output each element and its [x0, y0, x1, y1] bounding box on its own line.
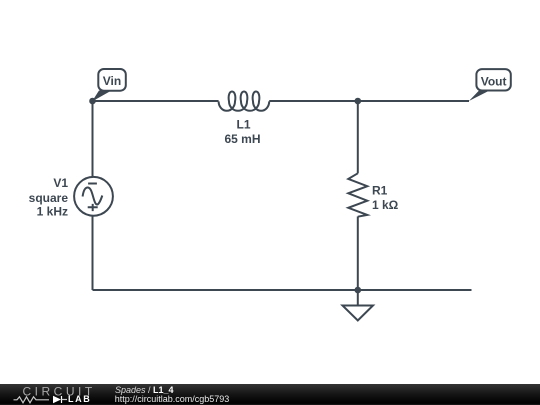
svg-text:L1: L1 [236, 117, 250, 131]
ground [343, 290, 374, 321]
svg-text:V1: V1 [53, 176, 68, 190]
svg-text:Vout: Vout [481, 75, 507, 89]
svg-text:R1: R1 [372, 183, 388, 197]
resistor R1 [348, 173, 367, 216]
node flag Vin [92, 69, 126, 102]
svg-text:LAB: LAB [68, 394, 91, 404]
svg-text:Vin: Vin [103, 74, 121, 88]
svg-text:1 kΩ: 1 kΩ [372, 198, 399, 212]
wire: left vertical from Vin node to V1 top [92, 101, 94, 177]
svg-text:square: square [29, 191, 69, 205]
svg-text:1 kHz: 1 kHz [37, 205, 68, 219]
node Vin junction dot [89, 98, 96, 105]
wire: R1 bottom lead [357, 217, 359, 291]
node flag Vout [469, 69, 511, 101]
inductor L1 [219, 92, 270, 111]
wire: top net from Vin node to Vout tail [93, 100, 470, 102]
logo mini schematic: resistor + diode [14, 396, 62, 403]
svg-text:65 mH: 65 mH [224, 132, 260, 146]
node junction dot bottom [355, 287, 362, 294]
wire: V1 bottom to bottom net [92, 216, 94, 291]
wire: R1 top lead [357, 101, 359, 173]
node junction dot top [355, 98, 362, 105]
voltage source V1 [74, 177, 113, 216]
svg-text:http://circuitlab.com/cgb5793: http://circuitlab.com/cgb5793 [115, 394, 230, 404]
wire: bottom net [93, 289, 472, 291]
